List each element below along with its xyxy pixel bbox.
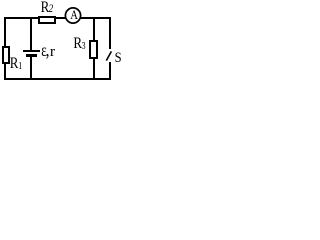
wire right upper (to switch) (109, 17, 111, 49)
svg-text:2: 2 (49, 2, 54, 15)
label R1 (10, 55, 23, 72)
ammeter A (65, 7, 80, 23)
label epsilon, r (41, 40, 55, 60)
wire bottom (4, 78, 111, 80)
resistor R2 (38, 16, 56, 24)
label R2 (41, 0, 54, 17)
svg-text:A: A (70, 7, 78, 22)
wire R3 upper lead (93, 17, 95, 41)
switch S blade (106, 51, 111, 60)
wire left (4, 17, 6, 80)
svg-text:r: r (50, 44, 55, 59)
svg-text:S: S (115, 49, 122, 65)
label R3 (73, 35, 85, 52)
wire battery lower lead (30, 57, 32, 80)
battery cell epsilon,r : short thick plate (26, 54, 37, 57)
resistor R3 (89, 40, 98, 59)
wire battery upper lead (30, 17, 32, 50)
battery cell epsilon,r : long plate (23, 50, 40, 52)
wire R3 lower lead (93, 58, 95, 80)
wire right lower (from switch) (109, 62, 111, 80)
svg-text:3: 3 (82, 40, 86, 51)
resistor R1 (2, 46, 10, 64)
wire top (4, 17, 111, 19)
svg-text:1: 1 (18, 60, 22, 71)
